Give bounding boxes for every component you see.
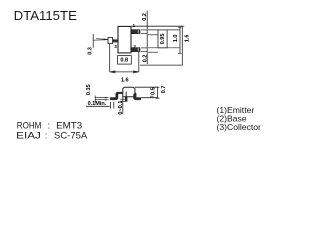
svg-text:0.5: 0.5 [150,87,156,95]
svg-text:SC-75A: SC-75A [54,130,88,140]
dimension 0~0.1 (standoff, bottom center) [118,97,127,115]
pin 2 lead (bottom right) [131,48,140,52]
extension line pin1 top to right dims [148,29,180,31]
svg-text:EIAJ: EIAJ [16,130,41,140]
dimension 0.1Min (bottom left) [86,101,114,108]
package name text ROHM : EMT3 [16,120,88,140]
svg-text:1.6: 1.6 [184,35,190,43]
svg-text:DTA115TE: DTA115TE [14,8,77,23]
dimension 1.6 (outer right vertical) [180,26,190,65]
extension line pin2 bottom to box [148,51,158,53]
svg-text:2: 2 [133,44,136,49]
svg-text:0.3: 0.3 [87,47,93,55]
extension line pin2 top to right dims [148,47,180,49]
svg-text:0.2: 0.2 [142,13,148,21]
svg-text::: : [48,120,51,130]
right lead gull-wing [134,92,141,100]
pin 3 pad (left) [108,38,113,44]
dimension 0.5 arrow marks [150,96,154,97]
extension line pin1 bottom to box [148,34,158,36]
svg-text::: : [45,130,48,140]
side view right dims: bottom extension line [141,97,158,99]
svg-text:1.0: 1.0 [173,35,179,43]
pin list [217,105,262,132]
side view right dims: top extension line [135,86,158,88]
svg-text:0.15: 0.15 [86,84,92,95]
dimension 0.15 (left, lead thickness) [86,84,110,102]
top view: body outline [118,26,131,53]
svg-text:1.6: 1.6 [121,77,129,83]
svg-text:0.8: 0.8 [120,57,128,63]
0.2 arrows at pin 2 [141,48,147,51]
svg-text:EMT3: EMT3 [56,120,82,130]
center lead (far side) [125,92,127,102]
dimension 0.3 (left): extension line [92,34,94,48]
svg-text:0~0.1: 0~0.1 [118,101,124,115]
dimension line vertical right [155,87,159,98]
0.2 arrows at pin 1 [141,30,147,33]
dimension 1.0 (inner right vertical) [173,27,182,53]
pin 1 lead (top right) [131,30,140,34]
dimension line for 0.2 lead widths (vertical) [146,11,148,64]
svg-text:(3)Collector: (3)Collector [217,122,262,132]
svg-text:1: 1 [133,23,136,28]
svg-text:0.2: 0.2 [143,55,149,63]
dimension 0.3 line with arrows [93,39,108,41]
svg-text:ROHM: ROHM [17,120,42,130]
extension line from body top to right dims [131,25,183,27]
pin 3 stem [113,39,118,42]
boxed dimension 0.8 (body width) [118,56,132,65]
side view body outline [123,87,135,97]
svg-text:0.1Min.: 0.1Min. [88,101,107,107]
boxed basic dimension 0.95 [158,30,167,48]
svg-text:0.7: 0.7 [161,86,167,94]
dimension 1.6 bottom: right extension line [138,52,140,72]
left lead gull-wing [110,92,123,100]
extension line bottom to outer right dim [140,64,183,66]
dimension 1.6 bottom: left extension line [109,44,111,72]
dimension 1.6 bottom: dim line [110,71,139,73]
svg-text:3: 3 [114,44,117,49]
svg-text:0.95: 0.95 [160,34,166,45]
